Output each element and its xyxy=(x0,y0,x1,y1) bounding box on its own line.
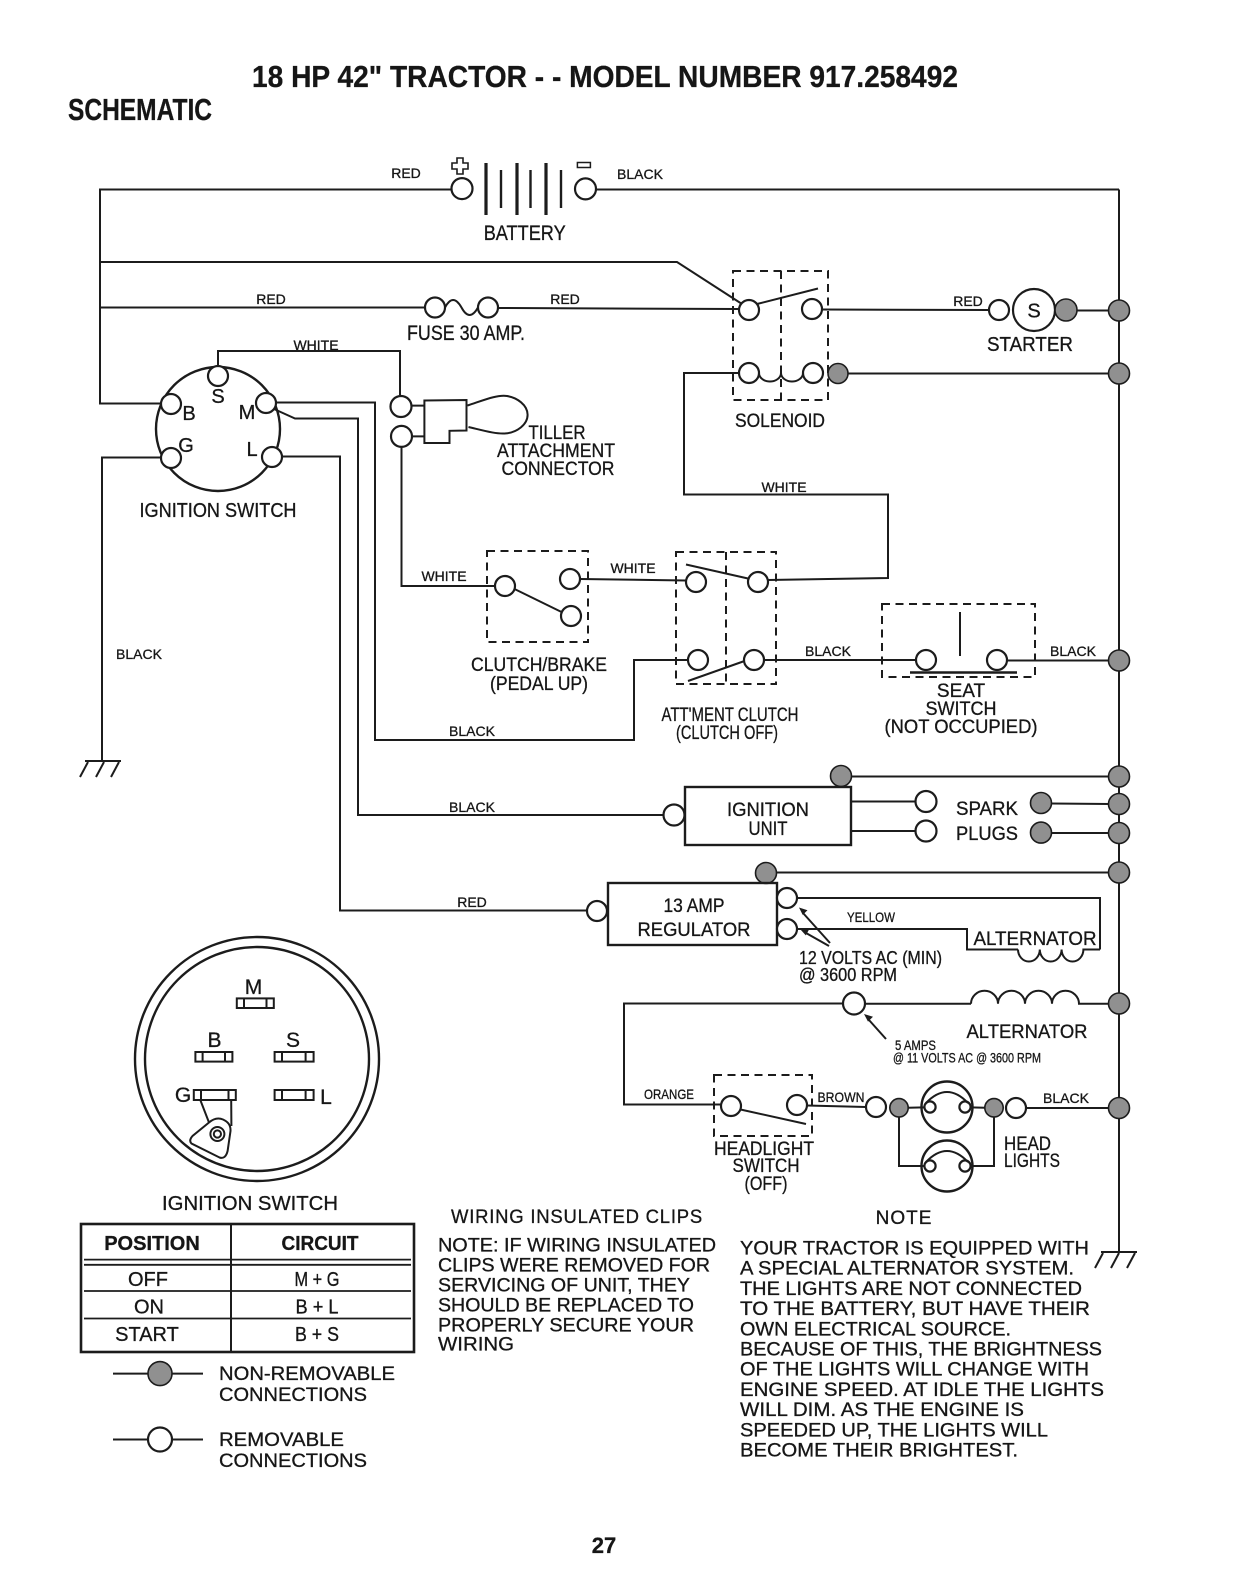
headlight switch arm xyxy=(741,1110,807,1125)
svg-text:RED: RED xyxy=(256,291,286,307)
wire ignition S to tiller connector xyxy=(218,351,400,395)
svg-text:BLACK: BLACK xyxy=(449,799,496,815)
svg-text:(NOT OCCUPIED): (NOT OCCUPIED) xyxy=(885,717,1038,738)
svg-text:REMOVABLE: REMOVABLE xyxy=(219,1430,344,1451)
svg-text:OWN ELECTRICAL SOURCE.: OWN ELECTRICAL SOURCE. xyxy=(740,1319,1011,1340)
wire tiller connector to clutch brake switch xyxy=(402,447,495,586)
ignition switch terminal M xyxy=(256,393,276,413)
seat switch contact left xyxy=(916,650,936,670)
svg-text:IGNITION: IGNITION xyxy=(727,800,809,821)
battery negative terminal xyxy=(575,178,596,199)
table position/circuit xyxy=(81,1224,414,1352)
svg-text:ENGINE SPEED. AT IDLE THE LIG: ENGINE SPEED. AT IDLE THE LIGHTS xyxy=(740,1380,1104,1401)
clutch/brake contact upper right xyxy=(560,569,580,589)
svg-text:18 HP 42" TRACTOR - - MODEL NU: 18 HP 42" TRACTOR - - MODEL NUMBER 917.2… xyxy=(252,59,958,94)
svg-text:UNIT: UNIT xyxy=(749,819,788,840)
headlamp feed connection xyxy=(866,1097,886,1117)
svg-text:PROPERLY SECURE YOUR: PROPERLY SECURE YOUR xyxy=(438,1316,694,1337)
svg-text:SERVICING OF UNIT, THEY: SERVICING OF UNIT, THEY xyxy=(438,1276,690,1297)
wire clutch/brake to attachment clutch xyxy=(580,579,686,581)
svg-text:FUSE 30 AMP.: FUSE 30 AMP. xyxy=(407,322,525,345)
battery minus symbol xyxy=(577,163,590,168)
svg-text:B: B xyxy=(207,1029,221,1052)
alternator G2 lighting winding xyxy=(971,991,1110,1004)
spark plug lower connection xyxy=(916,821,937,842)
wire lamp2 to splice right xyxy=(971,1117,995,1166)
svg-text:BLACK: BLACK xyxy=(116,646,163,662)
svg-text:WIRING: WIRING xyxy=(438,1335,514,1356)
ignition switch key pointer xyxy=(201,1101,232,1127)
headlamp 1 xyxy=(922,1082,973,1133)
svg-text:IGNITION SWITCH: IGNITION SWITCH xyxy=(140,500,297,522)
regulator output upper connection xyxy=(777,888,797,908)
wire ignition unit to spark plug upper xyxy=(851,801,915,803)
svg-text:WHITE: WHITE xyxy=(421,568,466,584)
attachment clutch lower arm xyxy=(688,661,745,681)
svg-text:ALTERNATOR: ALTERNATOR xyxy=(967,1022,1088,1043)
ignition switch rear view outer ring xyxy=(135,937,379,1181)
svg-text:S: S xyxy=(211,386,224,408)
svg-text:L: L xyxy=(320,1086,332,1109)
attachment clutch dashed box xyxy=(676,552,776,684)
solenoid switch contact left xyxy=(739,300,759,320)
battery plus symbol xyxy=(452,158,468,174)
svg-text:G: G xyxy=(175,1084,191,1107)
svg-text:RED: RED xyxy=(550,291,580,307)
svg-text:BATTERY: BATTERY xyxy=(484,222,566,245)
alternator G1 winding xyxy=(1018,950,1100,962)
headlamp output connection xyxy=(1006,1098,1026,1118)
wire seat switch to right bus xyxy=(1007,660,1110,662)
clutch/brake contact lower right xyxy=(561,606,581,626)
junction solenoid coil on right bus xyxy=(1109,363,1130,384)
note alternator paragraph xyxy=(740,1239,1104,1462)
svg-text:CONNECTIONS: CONNECTIONS xyxy=(219,1385,367,1406)
svg-text:ON: ON xyxy=(134,1297,164,1319)
wire regulator to alternator yellow xyxy=(797,929,1018,950)
svg-text:ALTERNATOR: ALTERNATOR xyxy=(974,929,1097,950)
battery BT1 plates xyxy=(486,163,561,215)
solenoid switch contact right xyxy=(802,299,822,319)
svg-text:BECAUSE OF THIS, THE BRIGHTNES: BECAUSE OF THIS, THE BRIGHTNESS xyxy=(740,1340,1102,1361)
svg-text:REGULATOR: REGULATOR xyxy=(638,920,751,941)
svg-text:CONNECTOR: CONNECTOR xyxy=(502,459,615,480)
svg-text:THE LIGHTS ARE NOT CONNECTED: THE LIGHTS ARE NOT CONNECTED xyxy=(740,1279,1082,1300)
arrow to regulator lower terminal xyxy=(806,933,829,946)
svg-text:(CLUTCH OFF): (CLUTCH OFF) xyxy=(676,723,778,744)
tiller connector bulb xyxy=(468,396,528,434)
seat switch bar xyxy=(910,671,1017,673)
wire regulator junction to right bus xyxy=(776,872,1110,874)
solenoid switch arm xyxy=(757,289,818,305)
attachment clutch contact upper right xyxy=(748,572,768,592)
wire ignition M to attachment clutch (black net) xyxy=(276,403,687,741)
svg-text:CLUTCH/BRAKE: CLUTCH/BRAKE xyxy=(471,655,607,676)
arrow to regulator upper terminal xyxy=(803,913,830,943)
regulator output lower connection xyxy=(777,919,797,939)
ignition switch terminal B xyxy=(161,394,181,414)
svg-text:S: S xyxy=(286,1029,300,1052)
ignition switch terminal L xyxy=(262,447,282,467)
svg-text:L: L xyxy=(246,439,257,461)
wire spark plug lower to right bus xyxy=(1051,832,1110,834)
svg-text:G: G xyxy=(178,435,194,457)
seat switch contact right xyxy=(987,650,1007,670)
solenoid dashed box xyxy=(733,271,828,400)
junction lighting alternator on right bus xyxy=(1109,993,1130,1014)
junction starter on right bus xyxy=(1109,300,1130,321)
svg-text:YELLOW: YELLOW xyxy=(847,909,896,925)
wire ignition unit junction to right bus xyxy=(851,776,1110,778)
wire solenoid to starter xyxy=(822,309,989,312)
junction seat switch on right bus xyxy=(1109,650,1130,671)
headlamp splice left (non-removable) xyxy=(890,1099,908,1117)
svg-text:STARTER: STARTER xyxy=(987,334,1073,356)
arrow 5 amps tap xyxy=(869,1020,886,1039)
wire ignition unit to spark plug lower xyxy=(851,830,915,832)
fuse F1 30 amp xyxy=(425,298,445,318)
ground left xyxy=(80,761,121,777)
svg-text:BLACK: BLACK xyxy=(805,643,852,659)
wire headlight switch to lamps xyxy=(807,1106,866,1108)
svg-text:WIRING INSULATED CLIPS: WIRING INSULATED CLIPS xyxy=(451,1207,703,1228)
wire ignition G to ground xyxy=(102,458,161,761)
svg-text:WHITE: WHITE xyxy=(610,560,655,576)
wire right bus vertical xyxy=(1118,190,1120,1252)
clutch/brake dashed box xyxy=(487,551,588,642)
svg-text:LIGHTS: LIGHTS xyxy=(1004,1151,1060,1172)
seat switch dashed box xyxy=(882,604,1035,677)
svg-text:27: 27 xyxy=(592,1533,616,1558)
svg-text:WHITE: WHITE xyxy=(761,479,806,495)
solenoid coil contact left xyxy=(739,363,759,383)
svg-text:NOTE: IF WIRING INSULATED: NOTE: IF WIRING INSULATED xyxy=(438,1236,716,1257)
svg-text:S: S xyxy=(1027,301,1040,323)
svg-text:TO THE BATTERY, BUT HAVE THEI: TO THE BATTERY, BUT HAVE THEIR xyxy=(740,1299,1090,1320)
tiller connector pin lower xyxy=(391,426,412,447)
wire spark plug upper to right bus xyxy=(1051,803,1110,806)
headlamp 2 xyxy=(922,1141,973,1192)
lighting alternator tap connection xyxy=(843,993,865,1015)
wire tap to lighting winding xyxy=(865,1003,971,1005)
svg-text:13 AMP: 13 AMP xyxy=(664,896,725,917)
svg-text:BLACK: BLACK xyxy=(1050,643,1097,659)
svg-text:SCHEMATIC: SCHEMATIC xyxy=(68,92,212,127)
svg-text:CLIPS WERE REMOVED FOR: CLIPS WERE REMOVED FOR xyxy=(438,1256,710,1277)
svg-text:START: START xyxy=(115,1324,179,1346)
battery positive terminal xyxy=(452,178,473,199)
solenoid coil winding xyxy=(759,373,803,382)
svg-text:BLACK: BLACK xyxy=(1043,1090,1090,1106)
svg-text:M: M xyxy=(239,402,256,424)
junction spark plug upper on right bus xyxy=(1109,794,1130,815)
headlight switch contact left xyxy=(721,1096,741,1116)
legend removable connection xyxy=(113,1439,203,1441)
svg-text:YOUR TRACTOR IS EQUIPPED WITH: YOUR TRACTOR IS EQUIPPED WITH xyxy=(740,1239,1089,1260)
svg-text:WILL DIM. AS THE ENGINE IS: WILL DIM. AS THE ENGINE IS xyxy=(740,1400,1024,1421)
svg-text:(PEDAL UP): (PEDAL UP) xyxy=(490,674,588,695)
wire headlamps to right bus xyxy=(1026,1107,1110,1109)
seat switch plunger xyxy=(959,612,961,656)
wire solenoid coil to right bus xyxy=(848,373,1110,375)
wire lamp1 to splice right xyxy=(971,1106,986,1108)
wire ignition M to ignition unit (black net) xyxy=(274,409,663,815)
wire attachment clutch to seat switch xyxy=(764,659,916,661)
junction regulator on right bus xyxy=(1109,862,1130,883)
svg-text:@ 3600 RPM: @ 3600 RPM xyxy=(799,965,897,985)
svg-text:SPEEDED UP, THE LIGHTS WILL: SPEEDED UP, THE LIGHTS WILL xyxy=(740,1420,1048,1441)
svg-text:NOTE: NOTE xyxy=(876,1208,933,1229)
wire solenoid coil to attachment clutch (white net) xyxy=(684,373,888,580)
ground right bus xyxy=(1095,1252,1137,1268)
svg-text:BLACK: BLACK xyxy=(449,723,496,739)
attachment clutch contact lower right xyxy=(744,650,764,670)
ignition switch terminal G xyxy=(161,448,181,468)
svg-text:RED: RED xyxy=(391,165,421,181)
headlight switch contact right xyxy=(787,1095,807,1115)
svg-text:CIRCUIT: CIRCUIT xyxy=(282,1233,359,1255)
svg-text:RED: RED xyxy=(457,894,487,910)
svg-text:A SPECIAL ALTERNATOR SYSTEM.: A SPECIAL ALTERNATOR SYSTEM. xyxy=(740,1259,1074,1280)
svg-text:(OFF): (OFF) xyxy=(745,1174,788,1195)
legend non-removable connection xyxy=(113,1373,203,1375)
wire battery positive to left bus and down to B terminal xyxy=(100,190,451,404)
clutch/brake contact left xyxy=(495,576,515,596)
svg-text:ORANGE: ORANGE xyxy=(644,1086,694,1102)
regulator input connection xyxy=(587,901,607,921)
attachment clutch contact upper left xyxy=(686,572,706,592)
svg-text:BROWN: BROWN xyxy=(818,1089,865,1105)
svg-text:CONNECTIONS: CONNECTIONS xyxy=(219,1451,367,1472)
svg-text:M: M xyxy=(245,976,263,999)
svg-text:BECOME THEIR BRIGHTEST.: BECOME THEIR BRIGHTEST. xyxy=(740,1441,1018,1462)
attachment clutch contact lower left xyxy=(688,650,708,670)
wire fuse to solenoid xyxy=(498,308,739,309)
wire left bus to fuse xyxy=(100,307,425,309)
ignition switch S1 body xyxy=(156,367,280,491)
svg-text:OFF: OFF xyxy=(128,1269,168,1291)
svg-text:BLACK: BLACK xyxy=(617,166,664,182)
svg-text:@ 11 VOLTS AC @ 3600 RPM: @ 11 VOLTS AC @ 3600 RPM xyxy=(893,1050,1041,1066)
headlamp splice right (non-removable) xyxy=(985,1099,1003,1117)
junction spark plug lower on right bus xyxy=(1109,823,1130,844)
ignition unit input connection xyxy=(664,805,685,826)
solenoid coil output (non-removable) xyxy=(828,364,848,384)
spark plug upper connection xyxy=(916,791,937,812)
headlight switch dashed box xyxy=(714,1075,812,1136)
junction headlamps on right bus xyxy=(1109,1098,1130,1119)
svg-text:RED: RED xyxy=(953,293,983,309)
svg-text:B + L: B + L xyxy=(296,1297,339,1319)
starter motor M1 xyxy=(1013,289,1055,331)
svg-text:SOLENOID: SOLENOID xyxy=(735,411,825,432)
svg-text:IGNITION SWITCH: IGNITION SWITCH xyxy=(162,1193,338,1215)
svg-text:POSITION: POSITION xyxy=(104,1233,200,1255)
regulator VR1 box xyxy=(608,883,777,945)
starter input connection xyxy=(989,300,1009,320)
ignition unit connection (non-removable) xyxy=(831,766,852,787)
wire starter to right bus xyxy=(1077,310,1110,312)
wire regulator to alternator top xyxy=(797,898,1100,950)
wire lighting alternator left leg xyxy=(624,1004,843,1105)
svg-text:PLUGS: PLUGS xyxy=(956,824,1018,845)
tiller connector pin stubs xyxy=(412,406,424,437)
wire battery negative to right bus xyxy=(596,189,1119,191)
svg-text:OF THE LIGHTS WILL CHANGE WITH: OF THE LIGHTS WILL CHANGE WITH xyxy=(740,1360,1089,1381)
wire ignition L to regulator (red net) xyxy=(282,457,587,911)
junction ignition unit on right bus xyxy=(1109,766,1130,787)
spark plug lower terminal (non-removable) xyxy=(1031,822,1052,843)
svg-text:SHOULD BE REPLACED TO: SHOULD BE REPLACED TO xyxy=(438,1296,694,1317)
svg-text:B: B xyxy=(182,403,195,425)
solenoid coil contact right xyxy=(803,363,823,383)
starter output connection (non-removable) xyxy=(1055,299,1077,321)
wire left bus branch to solenoid switch (diagonal) xyxy=(100,262,742,304)
ignition unit U1 box xyxy=(685,787,851,845)
wire splice left down to lamp2 xyxy=(899,1117,924,1166)
tiller connector pin upper xyxy=(391,396,412,417)
svg-text:NON-REMOVABLE: NON-REMOVABLE xyxy=(219,1364,395,1385)
svg-text:M + G: M + G xyxy=(295,1269,340,1291)
svg-text:SPARK: SPARK xyxy=(956,799,1018,820)
clutch/brake switch arm xyxy=(515,589,562,612)
ignition switch terminal S xyxy=(208,366,228,386)
tiller connector body xyxy=(424,400,466,443)
svg-text:B + S: B + S xyxy=(295,1324,339,1346)
spark plug upper terminal (non-removable) xyxy=(1031,793,1052,814)
regulator top connection (non-removable) xyxy=(756,863,777,884)
note wiring insulated clips paragraph xyxy=(438,1236,716,1356)
wire splice to lamp1 xyxy=(908,1106,924,1108)
attachment clutch upper arm xyxy=(686,565,748,579)
